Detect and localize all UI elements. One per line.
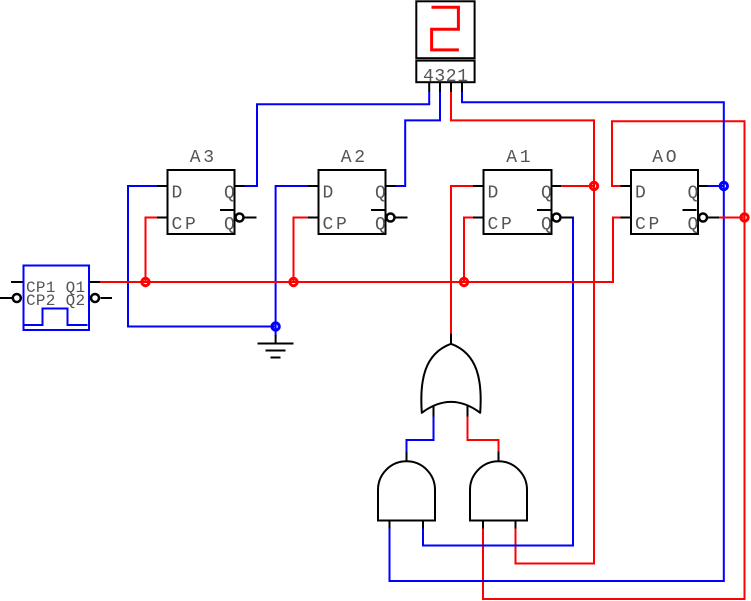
svg-text:CP: CP [488, 215, 515, 235]
svg-text:D: D [635, 184, 649, 204]
svg-text:CP: CP [323, 215, 350, 235]
svg-text:D: D [323, 184, 337, 204]
svg-text:CP: CP [172, 215, 199, 235]
svg-text:Q: Q [541, 184, 552, 204]
svg-text:D: D [488, 184, 502, 204]
svg-text:CP2 Q2: CP2 Q2 [26, 292, 85, 310]
svg-text:AO: AO [652, 148, 679, 168]
svg-text:A1: A1 [506, 148, 533, 168]
svg-text:Q: Q [541, 215, 552, 235]
svg-text:Q: Q [688, 215, 699, 235]
svg-text:CP: CP [635, 215, 662, 235]
svg-text:D: D [172, 184, 186, 204]
svg-text:Q: Q [688, 184, 699, 204]
svg-text:Q: Q [224, 184, 235, 204]
svg-text:A3: A3 [190, 148, 217, 168]
svg-text:Q: Q [375, 184, 386, 204]
svg-text:A2: A2 [341, 148, 368, 168]
svg-text:4321: 4321 [423, 67, 469, 87]
svg-text:Q: Q [224, 215, 235, 235]
svg-text:Q: Q [375, 215, 386, 235]
